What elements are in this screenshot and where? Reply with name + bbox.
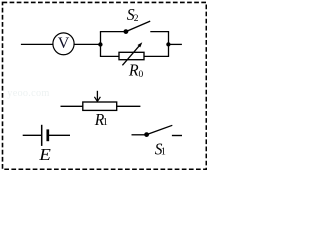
switch S2 [124, 21, 151, 34]
node A (left junction dot) [98, 42, 102, 46]
resistor R1 (slide rheostat box) [83, 102, 117, 110]
svg-text:R: R [128, 60, 139, 80]
wire left lead of S1 [132, 134, 147, 136]
wire left lead of battery [23, 134, 42, 136]
rheostat R0 arrow [122, 42, 142, 65]
svg-text:1: 1 [103, 117, 108, 128]
wire right vertical of parallel branch [168, 32, 170, 57]
wire left terminal to voltmeter [21, 43, 53, 45]
voltmeter V [53, 33, 74, 55]
wire top branch right segment [150, 31, 169, 33]
wire bottom branch right segment [144, 55, 169, 57]
wire node B to right terminal [169, 43, 182, 45]
wire top branch left segment [100, 31, 126, 33]
svg-text:E: E [38, 145, 51, 164]
label R1 [94, 109, 108, 129]
label S1 [155, 141, 166, 159]
node B (right junction dot) [166, 42, 170, 46]
wire bottom branch left segment [100, 55, 119, 57]
label S2 [127, 5, 139, 25]
wire left vertical of parallel branch [100, 32, 102, 57]
wire left lead of R1 [61, 105, 83, 107]
svg-text:2: 2 [134, 14, 139, 24]
svg-text:0: 0 [139, 70, 144, 80]
svg-text:V: V [58, 35, 70, 52]
label R0 [128, 60, 144, 80]
R1 slider arrow [94, 91, 100, 102]
wire right terminal dash of S1 [172, 135, 182, 137]
wire right lead of R1 [117, 105, 140, 107]
wire voltmeter to node A [74, 43, 101, 45]
battery E [42, 125, 48, 146]
svg-text:1: 1 [161, 147, 166, 158]
resistor R0 (rheostat box) [119, 52, 144, 59]
switch S1 [144, 125, 172, 137]
wire right lead of battery [49, 134, 70, 136]
svg-text:yeoo.com: yeoo.com [7, 88, 49, 99]
